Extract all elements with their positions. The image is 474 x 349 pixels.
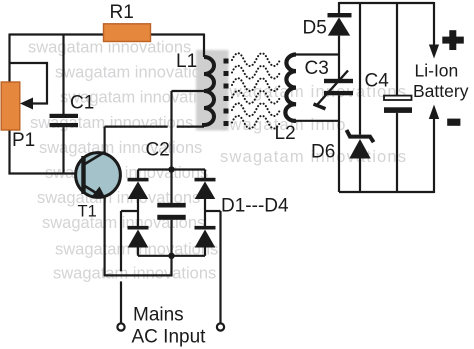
- wire AC left upper: [120, 211, 122, 271]
- transformer core laminations: [224, 59, 229, 127]
- wire bridge left branch upper: [137, 170, 139, 179]
- battery minus symbol: [447, 119, 460, 126]
- watermark: [28, 39, 407, 283]
- wire L1 bottom (right of crossover): [177, 125, 204, 127]
- svg-text:L2: L2: [275, 123, 296, 144]
- wire C2 top lead: [170, 170, 172, 204]
- wire bridge right branch lower: [204, 248, 206, 256]
- potentiometer P1: [1, 82, 33, 130]
- wire AC right vertical: [219, 211, 221, 323]
- wire bridge right branch upper: [204, 170, 206, 179]
- wire base rail: [8, 172, 81, 174]
- svg-text:R1: R1: [110, 2, 134, 23]
- wire L1 tap: [172, 90, 205, 92]
- svg-text:D5: D5: [303, 18, 327, 39]
- svg-text:C4: C4: [365, 71, 390, 92]
- terminal AC right: [217, 323, 224, 330]
- svg-text:AC Input: AC Input: [132, 327, 207, 348]
- wire AC right stub: [205, 210, 221, 212]
- wire D6 branch lower: [359, 158, 361, 193]
- inductor L2 secondary winding: [285, 54, 296, 120]
- svg-text:C1: C1: [70, 93, 94, 114]
- wire bridge bottom: [138, 255, 205, 257]
- diode D3 bridge bottom-left: [128, 226, 149, 248]
- svg-text:C2: C2: [146, 140, 170, 161]
- wire L1 bottom to collector (left of crossover): [105, 125, 168, 127]
- inductor L1 primary winding: [204, 57, 214, 127]
- wire P1 wiper vertical: [30, 62, 47, 104]
- svg-text:C3: C3: [305, 58, 329, 79]
- wire C2 bottom lead: [170, 220, 172, 256]
- terminal AC left: [117, 323, 124, 330]
- wire bridge negative return: [104, 256, 172, 276]
- diode D4 bridge bottom-right: [195, 226, 216, 248]
- wire left rail upper: [8, 34, 10, 83]
- svg-text:P1: P1: [12, 130, 35, 151]
- svg-text:Mains: Mains: [133, 305, 184, 326]
- wire AC left stub: [121, 210, 138, 212]
- wire C1 top lead: [62, 35, 64, 115]
- battery minus arrow: [429, 105, 439, 120]
- svg-text:Battery: Battery: [413, 81, 469, 101]
- wire bridge left branch middle: [137, 199, 139, 226]
- wire D5 to tank node: [338, 36, 340, 79]
- capacitor C4 electrolytic: [384, 96, 412, 113]
- wire bridge right branch middle: [204, 199, 206, 226]
- svg-text:Li-Ion: Li-Ion: [415, 61, 459, 81]
- magnetic flux lines: [232, 53, 280, 128]
- wire D5 top lead: [338, 2, 340, 13]
- wire tank branch lower: [338, 95, 340, 192]
- battery plus arrow: [429, 45, 439, 59]
- wire top rail left section: [10, 33, 205, 35]
- wire L2 bottom lead: [292, 120, 339, 122]
- wire collector vertical: [103, 127, 105, 153]
- transformer core shading: [196, 50, 229, 131]
- diode D6 zener: [347, 130, 374, 159]
- wire C4 branch lower: [396, 113, 398, 192]
- wire AC left lower: [120, 281, 122, 323]
- svg-text:swagatam innovations: swagatam innovations: [53, 264, 216, 282]
- wire battery minus lead: [433, 117, 435, 193]
- svg-text:D6: D6: [311, 142, 335, 163]
- wire L1 top lead: [203, 34, 205, 58]
- transistor T1: [76, 152, 121, 200]
- capacitor C1: [50, 114, 79, 127]
- wire right bottom rail: [339, 191, 434, 193]
- wire D6 branch upper: [359, 2, 361, 135]
- capacitor C3 variable: [314, 71, 354, 109]
- wire right top rail: [339, 2, 434, 4]
- wire C1 bottom lead: [62, 127, 64, 173]
- diode D1 bridge top-left: [128, 178, 149, 199]
- wire bridge top: [138, 168, 205, 170]
- junction bridge top node: [168, 166, 174, 172]
- wire P1 bottom lead: [8, 130, 10, 174]
- capacitor C2: [157, 203, 185, 220]
- wire bridge left branch lower: [137, 248, 139, 256]
- svg-text:L1: L1: [176, 51, 197, 72]
- wire emitter vertical: [103, 197, 105, 275]
- wire P1 wiper link top: [10, 62, 48, 64]
- diode D2 bridge top-right: [195, 178, 216, 199]
- diode D5: [328, 13, 352, 36]
- svg-text:T1: T1: [78, 203, 97, 221]
- svg-text:D1---D4: D1---D4: [221, 196, 289, 217]
- wire C4 branch upper: [396, 2, 398, 95]
- wire L2 top lead: [292, 53, 339, 55]
- wire battery plus lead: [433, 2, 435, 45]
- junction bridge bottom node: [168, 253, 174, 259]
- battery plus symbol: [442, 30, 464, 50]
- resistor R1: [104, 24, 151, 42]
- wire tap to bridge (C2 node): [170, 91, 172, 170]
